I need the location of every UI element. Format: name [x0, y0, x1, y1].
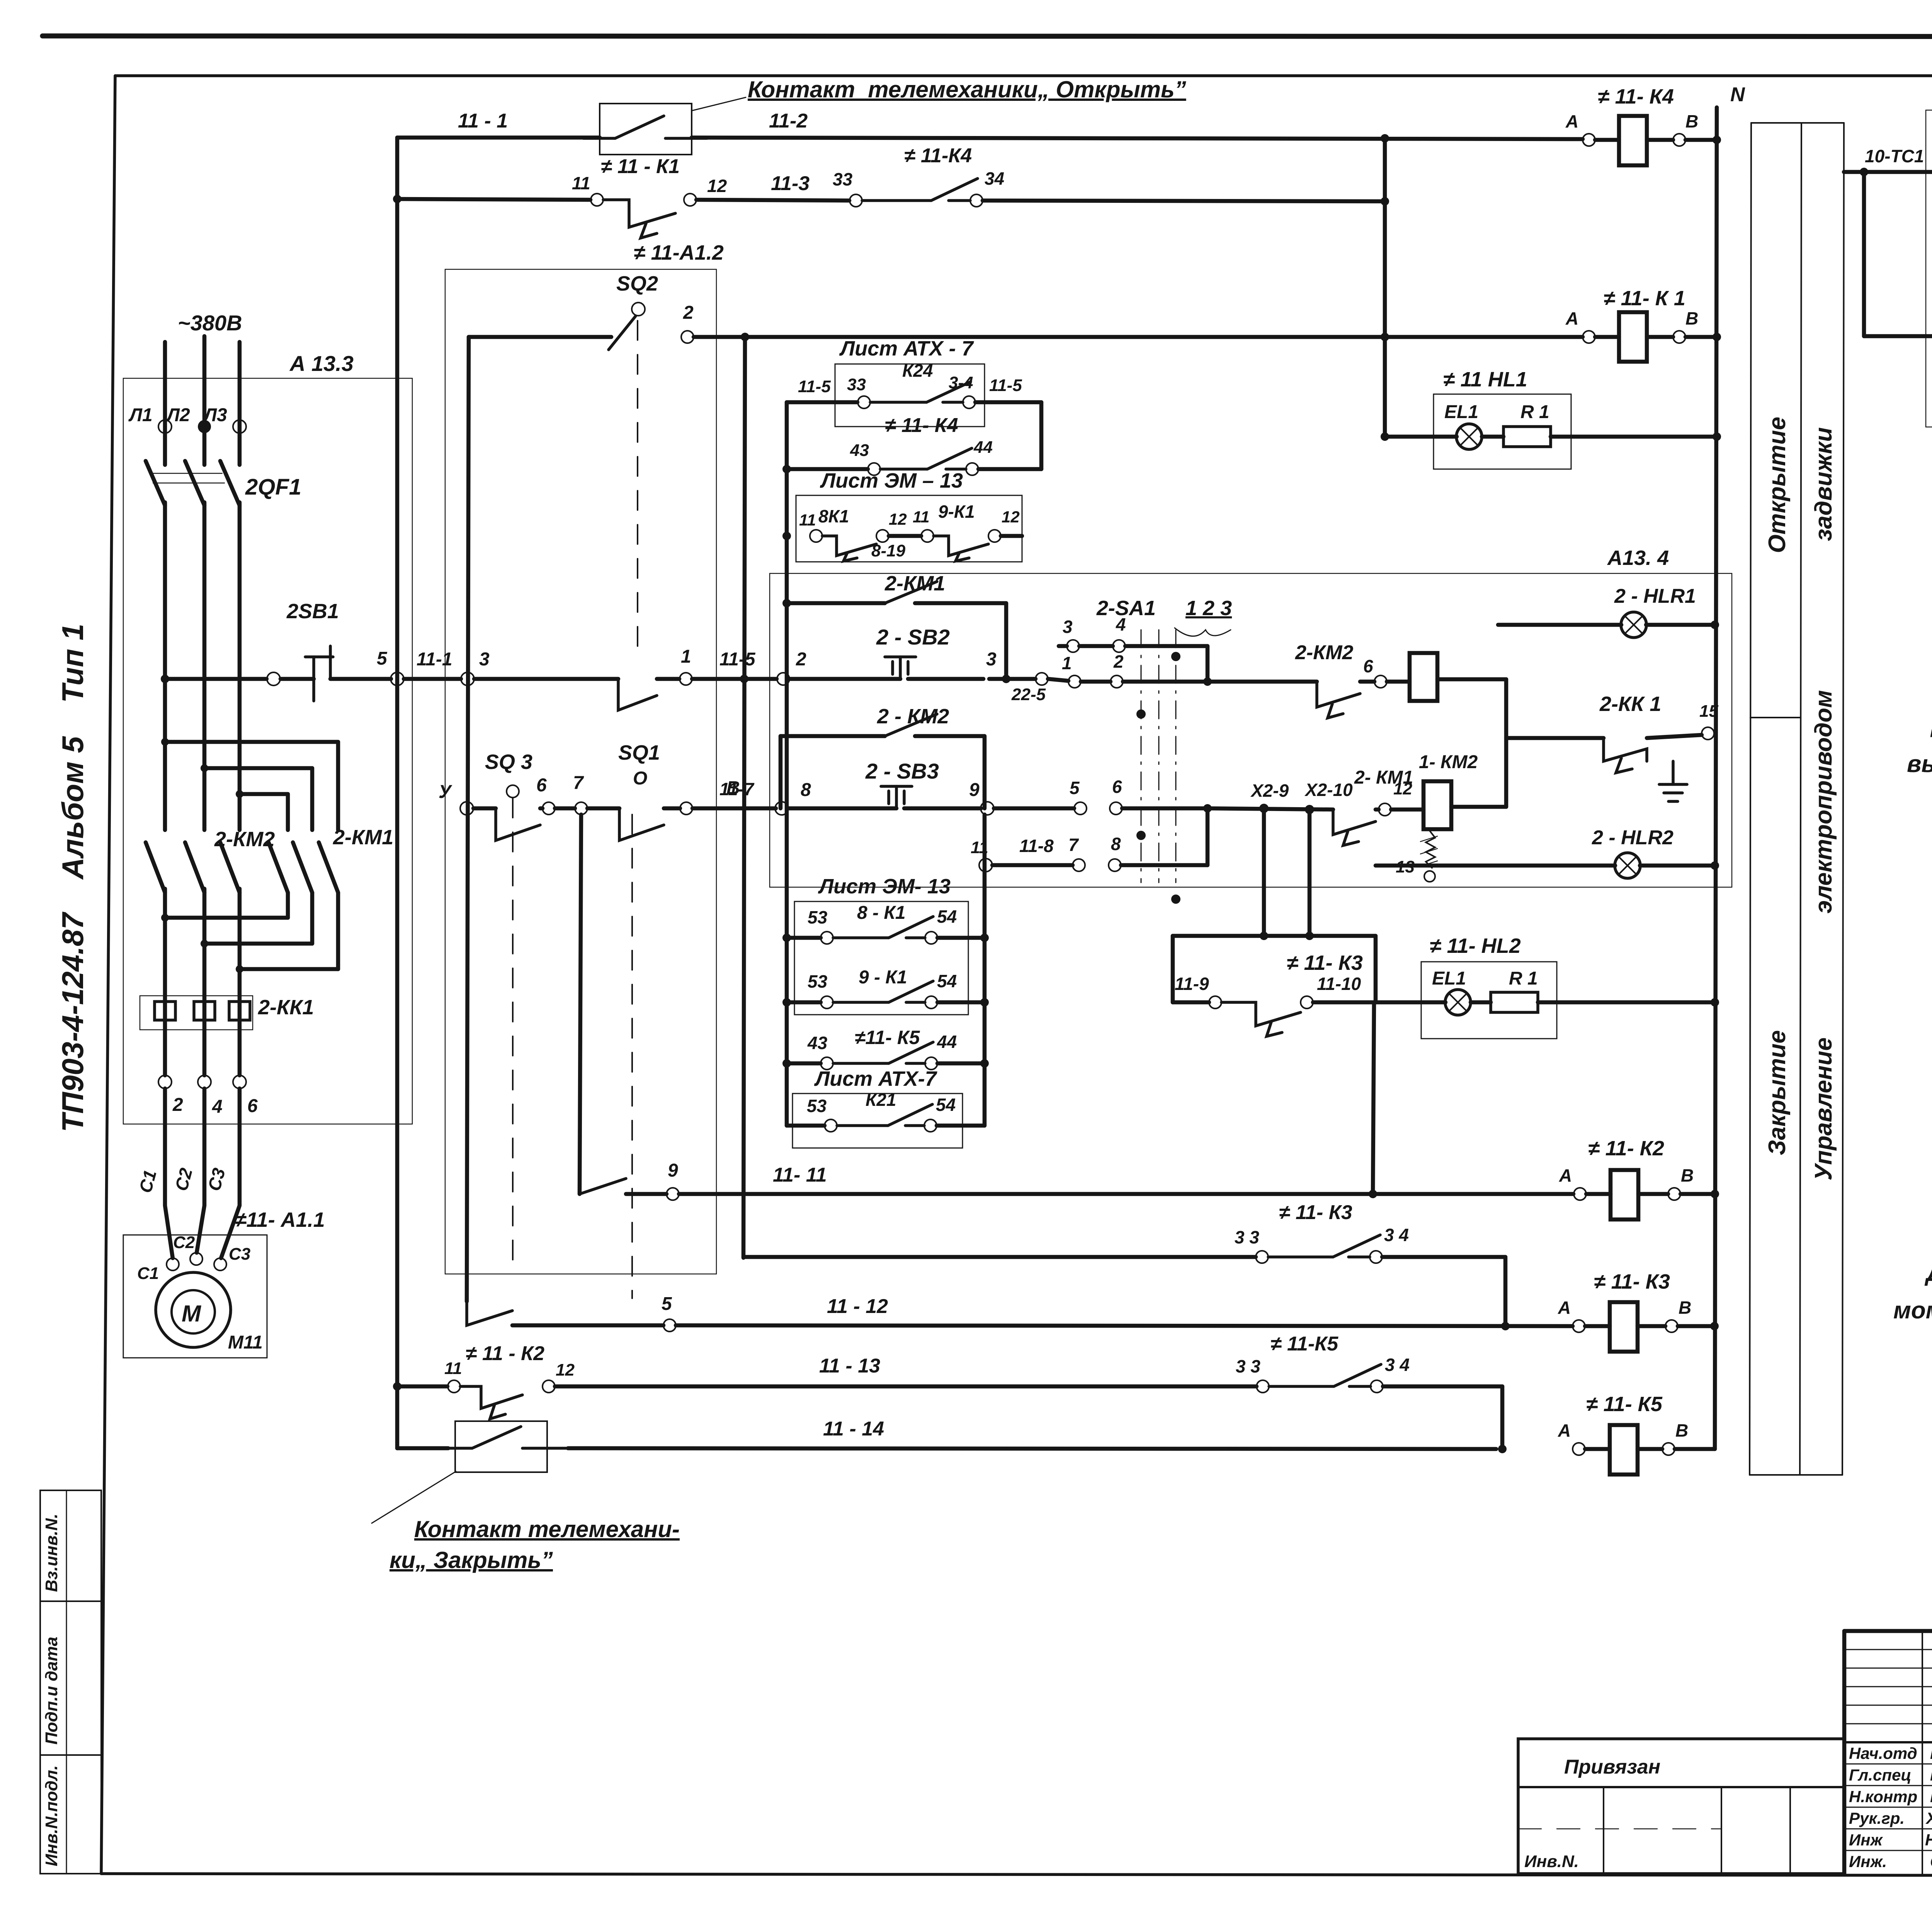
svg-text:3: 3 — [1063, 617, 1073, 637]
ground symbol — [1659, 761, 1687, 801]
svg-text:3 4: 3 4 — [1385, 1355, 1410, 1375]
svg-text:Лист АТХ - 7: Лист АТХ - 7 — [839, 337, 975, 360]
wire N bus — [1715, 83, 1745, 1449]
svg-text:11-7: 11-7 — [719, 779, 755, 799]
lamp 2-HLR1 — [1498, 585, 1719, 638]
svg-text:5: 5 — [1070, 778, 1080, 798]
svg-text:3 3: 3 3 — [1236, 1356, 1260, 1376]
svg-text:2-SA1: 2-SA1 — [1096, 597, 1156, 620]
wire drop to 2-SA1 — [1864, 172, 1932, 336]
limit switch SQ1 — [618, 741, 680, 1298]
svg-text:К24: К24 — [902, 361, 933, 381]
svg-text:5: 5 — [662, 1294, 672, 1314]
coil 11-K4 — [1565, 85, 1721, 165]
svg-text:11 - 13: 11 - 13 — [819, 1355, 880, 1377]
wire L3 lower — [238, 502, 242, 830]
wire bus B2 — [1381, 138, 1389, 441]
resistor R1 (HL1) — [1482, 427, 1721, 447]
box List ATX-7 lower — [793, 1067, 963, 1148]
svg-text:44: 44 — [973, 438, 993, 457]
svg-text:11 - 14: 11 - 14 — [823, 1418, 884, 1440]
svg-text:≠11- К5: ≠11- К5 — [855, 1027, 920, 1048]
wire W2 right — [983, 197, 1389, 206]
svg-text:М11: М11 — [228, 1332, 263, 1353]
node 5 left — [267, 672, 280, 685]
node 6 coil — [1363, 656, 1387, 688]
label ~380V — [178, 311, 242, 335]
wire 11-2 — [692, 110, 1583, 143]
node L3 — [203, 405, 246, 433]
svg-text:SQ1: SQ1 — [618, 741, 660, 764]
wire X2-9 drop — [1262, 808, 1266, 936]
button 2-SB2 — [789, 625, 997, 679]
svg-text:8-19: 8-19 — [871, 541, 906, 560]
contact 2-KK1 break — [1506, 692, 1718, 773]
wire phase L1 — [163, 342, 167, 465]
node 12 — [1379, 779, 1412, 816]
wire bus A left stack — [782, 402, 791, 1126]
band rectangle — [1750, 123, 1844, 1475]
svg-text:Х2-9: Х2-9 — [1250, 781, 1289, 801]
svg-text:О: О — [633, 768, 647, 789]
svg-text:1- КМ2: 1- КМ2 — [1419, 752, 1478, 772]
contact 11-K3 break 11-9 11-10 — [1173, 951, 1376, 1036]
contact 11-K4 row 43-44 — [787, 414, 1041, 475]
contact 9-K1 break — [889, 502, 1022, 561]
svg-text:11-5: 11-5 — [719, 649, 756, 670]
lamp EL1 (HL1) — [1385, 424, 1482, 449]
label Kontakt telemechaniki Otkryt — [748, 77, 1186, 102]
svg-text:Инв.N.: Инв.N. — [1524, 1852, 1579, 1871]
node L1 — [128, 405, 172, 433]
svg-text:11: 11 — [572, 173, 590, 193]
svg-text:≠ 11 - К1: ≠ 11 - К1 — [601, 155, 680, 178]
contactor 2-KM1 main contacts — [269, 826, 393, 893]
wire 11-K3 block top — [1173, 932, 1376, 1002]
limit switch SQ2 — [469, 272, 658, 655]
node V — [680, 778, 740, 815]
switch SA1 linkage dash-dot lines — [1136, 630, 1180, 904]
svg-text:У: У — [439, 782, 452, 802]
svg-text:≠ 11-А1.2: ≠ 11-А1.2 — [634, 241, 724, 264]
node 4 — [198, 1075, 223, 1117]
svg-text:11-10: 11-10 — [1317, 974, 1361, 994]
svg-text:11-9: 11-9 — [1175, 974, 1209, 994]
svg-text:А: А — [1565, 111, 1578, 131]
wire 11-13 row — [397, 1384, 447, 1389]
svg-text:12: 12 — [707, 176, 727, 196]
svg-text:11-2: 11-2 — [769, 110, 808, 132]
box 11-A1.1 — [123, 1208, 325, 1358]
contact 33-34 for 11-K3 — [743, 1201, 1505, 1326]
svg-text:Л1: Л1 — [128, 405, 153, 425]
svg-text:электроприводом: электроприводом — [1810, 690, 1837, 913]
svg-text:9 - К1: 9 - К1 — [859, 967, 907, 988]
wire L1 to KK1 — [163, 889, 167, 1075]
svg-text:А: А — [1558, 1420, 1571, 1440]
svg-text:2: 2 — [796, 649, 806, 670]
svg-text:≠ 11 - К2: ≠ 11 - К2 — [466, 1342, 544, 1365]
wire bridge to 2-KM1 top a — [161, 738, 338, 830]
svg-text:12: 12 — [889, 510, 907, 528]
svg-text:3 3: 3 3 — [1235, 1227, 1259, 1247]
wire 11-14 — [568, 1418, 1507, 1453]
svg-text:Лист АТХ-7: Лист АТХ-7 — [814, 1067, 938, 1090]
wire motor lead C3 — [204, 1088, 240, 1258]
svg-text:≠ 11- К2: ≠ 11- К2 — [1588, 1137, 1664, 1160]
svg-text:А: А — [1559, 1165, 1572, 1185]
wire bridge bottom b — [201, 893, 312, 947]
svg-text:В: В — [1675, 1420, 1688, 1440]
svg-text:7: 7 — [573, 773, 584, 793]
svg-text:33: 33 — [847, 375, 866, 394]
lamp 2-HLR2 — [1376, 827, 1719, 878]
svg-text:1: 1 — [1062, 653, 1072, 673]
wire phase L3 — [238, 342, 242, 465]
wire SQ3 row — [555, 806, 619, 811]
svg-text:Нач.отд: Нач.отд — [1849, 1744, 1917, 1762]
svg-text:А13. 4: А13. 4 — [1607, 546, 1669, 570]
svg-text:≠ 11- HL2: ≠ 11- HL2 — [1430, 934, 1521, 957]
svg-text:2 - HLR2: 2 - HLR2 — [1592, 827, 1673, 849]
svg-text:1: 1 — [681, 646, 691, 667]
svg-text:≠ 11- К3: ≠ 11- К3 — [1279, 1201, 1352, 1224]
svg-text:2 - HLR1: 2 - HLR1 — [1614, 585, 1696, 607]
svg-text:2-КМ2: 2-КМ2 — [214, 828, 275, 851]
box A13.3 — [123, 351, 412, 1124]
svg-text:С3: С3 — [229, 1245, 250, 1264]
svg-text:А: А — [1558, 1298, 1571, 1318]
svg-text:Л2: Л2 — [166, 405, 190, 425]
contact 8K1 break — [799, 506, 907, 561]
svg-text:С2: С2 — [173, 1233, 195, 1252]
svg-text:В: В — [1685, 111, 1698, 131]
svg-text:2-КМ2: 2-КМ2 — [1295, 641, 1354, 664]
svg-text:11 - 12: 11 - 12 — [827, 1295, 888, 1318]
svg-text:2QF1: 2QF1 — [245, 474, 301, 500]
svg-text:ТП903-4-124.87 Альбом 5: ТП903-4-124.87 Альбом 5 Тип 1 — [56, 624, 90, 1132]
svg-text:10-ТС1: 10-ТС1 — [1865, 146, 1924, 166]
wire 11-3 — [696, 172, 849, 201]
band text Upravlenie — [1810, 1037, 1837, 1180]
svg-text:Лист ЭМ – 13: Лист ЭМ – 13 — [820, 469, 963, 492]
button 2SB1 — [281, 600, 391, 701]
svg-text:В: В — [1685, 308, 1698, 328]
svg-text:ки„ Закрыть”: ки„ Закрыть” — [389, 1547, 553, 1573]
wire K24 side verticals — [1039, 402, 1044, 469]
band text elektroprivodom — [1810, 690, 1837, 913]
svg-text:3: 3 — [986, 649, 997, 670]
svg-text:≠ 11- К3: ≠ 11- К3 — [1287, 951, 1363, 975]
leader to label Close — [372, 1471, 456, 1523]
svg-text:Н.контр: Н.контр — [1849, 1787, 1917, 1806]
svg-text:6: 6 — [536, 775, 547, 796]
wire bridge bottom c — [236, 893, 338, 973]
box List EM-13 lower — [794, 875, 968, 1015]
thermal relay 2-KK1 — [140, 996, 314, 1030]
svg-text:Цапко: Цапко — [1930, 1744, 1932, 1762]
svg-text:В: В — [1679, 1298, 1691, 1318]
svg-text:≠ 11- К4: ≠ 11- К4 — [885, 414, 958, 437]
svg-text:12: 12 — [556, 1361, 575, 1379]
svg-text:R 1: R 1 — [1520, 402, 1549, 422]
privyazan box — [1518, 1739, 1844, 1874]
svg-text:6: 6 — [1363, 656, 1373, 676]
svg-text:Управление: Управление — [1810, 1037, 1837, 1180]
svg-text:Инж: Инж — [1849, 1831, 1883, 1849]
node 2 SQ2 — [681, 303, 694, 343]
svg-text:2: 2 — [172, 1095, 183, 1115]
wire feed row to SB2 — [692, 649, 777, 683]
svg-text:2-КМ1: 2-КМ1 — [333, 826, 393, 849]
svg-text:моментной муфты электропр: моментной муфты электроприводов — [1893, 1297, 1932, 1324]
lamp box 11-HL2 — [1421, 934, 1557, 1039]
wire bus right stack — [983, 815, 987, 1126]
svg-text:≠ 11-К5: ≠ 11-К5 — [1270, 1333, 1338, 1355]
svg-text:5: 5 — [377, 648, 388, 669]
svg-text:Подп.и дата: Подп.и дата — [42, 1637, 61, 1745]
breaker 2QF1 — [146, 461, 301, 505]
svg-text:≠ 11- К 1: ≠ 11- К 1 — [1604, 287, 1685, 310]
wire W2 11-3 — [397, 199, 590, 200]
svg-text:12: 12 — [1393, 779, 1412, 798]
left rotated document number — [56, 624, 90, 1132]
svg-text:2 - КМ2: 2 - КМ2 — [877, 705, 949, 728]
svg-text:1 2 3: 1 2 3 — [1185, 597, 1232, 620]
wire bridge bottom a — [161, 893, 288, 922]
contact 9-K1 row 53-54 — [787, 967, 989, 1009]
band text zadvizhki — [1810, 427, 1837, 541]
svg-text:11 - 1: 11 - 1 — [458, 110, 508, 132]
svg-text:Закрытие: Закрытие — [1764, 1030, 1791, 1155]
wire 11-11 — [679, 1164, 1573, 1198]
switch 2-SA1 contact 1-2 — [1048, 651, 1317, 688]
node C1 — [137, 1258, 179, 1283]
svg-text:Вз.инв.N.: Вз.инв.N. — [42, 1514, 61, 1592]
svg-text:3-4: 3-4 — [949, 373, 973, 392]
box A13.4 — [770, 546, 1732, 887]
coil 1-KM2 — [1391, 752, 1506, 829]
wire L2 to KK1 — [202, 889, 207, 1075]
winding 13 resistor squiggle — [1396, 831, 1437, 882]
svg-text:54: 54 — [937, 906, 957, 927]
svg-text:Инв.N.подл.: Инв.N.подл. — [42, 1765, 61, 1866]
wire SB3 row to SA1 — [994, 806, 1074, 811]
wire 11-14 start — [397, 1446, 448, 1451]
node 2 mid — [777, 649, 806, 685]
svg-text:9: 9 — [969, 780, 980, 800]
svg-text:2: 2 — [1113, 651, 1124, 672]
svg-text:Шейнин: Шейнин — [1930, 1787, 1932, 1806]
lamp EL1 (HL2) — [1376, 990, 1471, 1015]
title diagram 2 — [1893, 1260, 1932, 1359]
band text Zakrytie — [1764, 1030, 1791, 1155]
svg-text:44: 44 — [937, 1032, 957, 1052]
title block outer — [1844, 1631, 1932, 1874]
svg-text:~380В: ~380В — [178, 311, 242, 335]
wire 11-13 — [555, 1355, 1257, 1386]
svg-text:А: А — [1565, 308, 1578, 328]
limit switch SQ3 — [439, 750, 543, 1262]
svg-text:9-К1: 9-К1 — [938, 502, 975, 522]
contact K21 row 53-54 — [787, 1090, 985, 1132]
svg-text:6: 6 — [1112, 777, 1122, 797]
svg-text:Гл.спец: Гл.спец — [1849, 1766, 1911, 1784]
svg-text:≠ 11 HL1: ≠ 11 HL1 — [1443, 368, 1527, 391]
wire bus B1 — [393, 138, 401, 1448]
wire L3 to KK1 — [238, 889, 242, 1075]
svg-text:≠ 11- К4: ≠ 11- К4 — [1598, 85, 1674, 108]
svg-text:К21: К21 — [866, 1090, 896, 1110]
wire SB3 row to KM1 contact — [1207, 808, 1333, 810]
svg-text:Навосельская: Навосельская — [1925, 1831, 1932, 1849]
svg-text:С1: С1 — [137, 1264, 159, 1283]
coil 11-K1 — [1565, 287, 1721, 362]
svg-text:11-8: 11-8 — [1019, 836, 1054, 856]
svg-text:Инж.: Инж. — [1849, 1852, 1887, 1871]
node 2 — [158, 1075, 183, 1115]
svg-text:Шубов: Шубов — [1930, 1766, 1932, 1784]
svg-text:11: 11 — [913, 508, 930, 526]
contact B4 to 11-12 — [467, 1294, 676, 1332]
label X2-10 — [1304, 780, 1353, 814]
svg-text:11-3: 11-3 — [771, 172, 810, 195]
coil 11-K3 — [1558, 1270, 1719, 1352]
svg-text:54: 54 — [936, 1095, 956, 1115]
telemechanics contact Close box — [440, 1421, 568, 1472]
wire 11-12 — [676, 1295, 1573, 1330]
label Kontakt telemechaniki Zakryt — [389, 1516, 680, 1573]
svg-text:2: 2 — [683, 303, 694, 323]
telemechanics contact Open box — [583, 104, 707, 155]
contact 2-KM1 break before coil 1-KM2 — [1333, 767, 1413, 845]
svg-text:SQ 3: SQ 3 — [485, 750, 532, 774]
leader to label — [692, 97, 746, 111]
top border line — [43, 36, 1932, 37]
wire 10-TC1 row — [1844, 146, 1932, 176]
svg-text:≠11- А1.1: ≠11- А1.1 — [235, 1208, 325, 1231]
wire L1 lower — [163, 502, 167, 830]
svg-text:Открытие: Открытие — [1764, 417, 1791, 553]
node L2 — [166, 405, 211, 433]
svg-text:Хаимовский: Хаимовский — [1925, 1809, 1932, 1827]
wire motor lead C1 — [135, 1088, 173, 1258]
box 11-A1.2 — [445, 241, 724, 1274]
lamp box 11HL1 — [1434, 368, 1571, 469]
svg-text:11: 11 — [444, 1359, 462, 1378]
svg-text:34: 34 — [985, 168, 1004, 189]
svg-text:6: 6 — [247, 1096, 258, 1116]
svg-text:53: 53 — [807, 1096, 827, 1116]
coil 11-K2 — [1559, 1137, 1719, 1219]
svg-text:Рук.гр.: Рук.гр. — [1849, 1809, 1905, 1827]
svg-text:2-КМ1: 2-КМ1 — [884, 572, 945, 595]
svg-text:задвижки: задвижки — [1810, 427, 1837, 541]
box List EM-13 upper — [796, 469, 1022, 562]
left margin stamp boxes — [40, 1490, 101, 1874]
svg-text:8: 8 — [1111, 834, 1121, 854]
svg-text:53: 53 — [808, 907, 828, 927]
wire motor lead C2 — [171, 1088, 204, 1253]
wire SQ3 row right — [692, 779, 776, 808]
band text Otkrytie — [1764, 417, 1791, 553]
wire bus B3 — [740, 337, 748, 1258]
svg-text:22-5: 22-5 — [1011, 685, 1046, 704]
svg-text:12: 12 — [1002, 508, 1020, 526]
coil 11-K5 — [1558, 1393, 1715, 1475]
switch 2-SA1 contact 3-4 — [1059, 614, 1207, 682]
svg-text:11- 11: 11- 11 — [773, 1164, 827, 1186]
svg-text:11-5: 11-5 — [989, 376, 1022, 395]
svg-text:Лист ЭМ- 13: Лист ЭМ- 13 — [818, 875, 951, 898]
contact 33-34 for 11-K5 — [1236, 1333, 1502, 1449]
svg-text:≠ 11-К4: ≠ 11-К4 — [904, 145, 972, 167]
svg-text:11-5: 11-5 — [798, 377, 831, 396]
svg-text:Привязан: Привязан — [1564, 1756, 1660, 1778]
svg-text:54: 54 — [937, 971, 957, 991]
wire bus B5 — [580, 815, 581, 1194]
svg-text:11: 11 — [971, 838, 988, 857]
wire block right drop to 11-11 — [1373, 1002, 1374, 1194]
svg-text:53: 53 — [808, 971, 828, 992]
wire X2-10 drop — [1305, 810, 1314, 940]
node 7 — [573, 773, 587, 815]
svg-text:2-КК 1: 2-КК 1 — [1599, 692, 1661, 716]
svg-text:11: 11 — [799, 511, 816, 529]
svg-text:Л3: Л3 — [203, 405, 227, 425]
contactor 2-KM2 main contacts — [146, 828, 275, 893]
contact 8-K1 row 53-54 — [787, 903, 989, 944]
switch 2-SA1 contact 5-6 — [1070, 777, 1212, 815]
wire L2 lower — [202, 502, 207, 830]
node 5 on B1 — [377, 648, 452, 685]
svg-text:8: 8 — [801, 780, 811, 800]
node 6 — [536, 775, 555, 815]
svg-text:В: В — [1681, 1165, 1694, 1185]
svg-text:Контакт телемеханики„ Открыть: Контакт телемеханики„ Открыть” — [748, 77, 1186, 102]
node C3 — [214, 1245, 250, 1270]
svg-text:2 - SB2: 2 - SB2 — [876, 625, 950, 649]
title diagram 1 — [1907, 711, 1932, 810]
svg-text:Соколова: Соколова — [1930, 1852, 1932, 1871]
box A13.5 — [1926, 83, 1932, 427]
svg-text:EL1: EL1 — [1432, 968, 1466, 989]
wire feed to 22-5 — [989, 673, 1048, 704]
button 2-SB3 — [775, 759, 994, 815]
svg-text:М: М — [182, 1301, 202, 1327]
wire 11-1 top — [397, 110, 600, 138]
svg-text:выключателей электроприводов: выключателей электроприводов задвижек — [1907, 751, 1932, 777]
node 6 — [233, 1075, 258, 1116]
svg-text:7: 7 — [1068, 835, 1079, 855]
contact K24 row 11-5 — [787, 361, 1041, 408]
svg-text:≠ 11- К5: ≠ 11- К5 — [1586, 1393, 1663, 1416]
staff grid rows — [1844, 1631, 1932, 1874]
contact SQ2 second on feed row — [618, 679, 679, 710]
contact 2-SA1 7-8 row 11-8 — [971, 808, 1207, 872]
svg-text:11-1: 11-1 — [417, 649, 452, 670]
svg-text:8К1: 8К1 — [818, 506, 849, 526]
svg-text:2SB1: 2SB1 — [286, 600, 339, 623]
contact 2-KM2 break before coil — [1295, 641, 1374, 718]
svg-text:Контакт телемехани-: Контакт телемехани- — [414, 1516, 680, 1542]
node 3 on B4 — [461, 649, 490, 685]
motor M11 — [156, 1272, 263, 1353]
svg-text:N: N — [1730, 83, 1745, 106]
svg-text:SQ2: SQ2 — [616, 272, 658, 295]
contact SQ1 to 11-11 — [580, 1160, 679, 1200]
box List ATX-7 upper — [835, 337, 985, 427]
